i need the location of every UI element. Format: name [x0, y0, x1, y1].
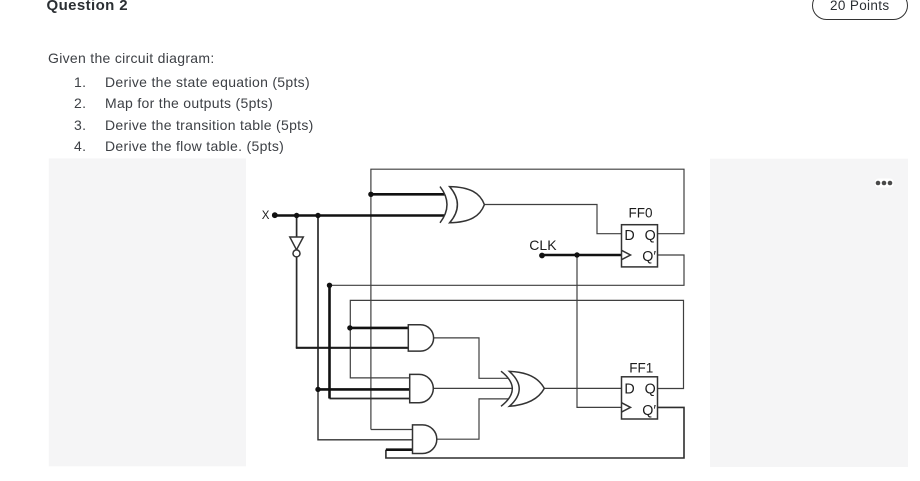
- svg-text:Q′: Q′: [642, 249, 656, 265]
- svg-text:D: D: [624, 382, 634, 398]
- svg-text:Q: Q: [645, 228, 656, 244]
- svg-text:D: D: [624, 228, 634, 244]
- svg-text:FF0: FF0: [629, 206, 653, 221]
- svg-text:X: X: [262, 210, 270, 222]
- svg-text:FF1: FF1: [629, 361, 653, 376]
- svg-text:Q: Q: [645, 382, 656, 398]
- svg-text:CLK: CLK: [529, 237, 557, 253]
- svg-text:Q′: Q′: [642, 403, 656, 419]
